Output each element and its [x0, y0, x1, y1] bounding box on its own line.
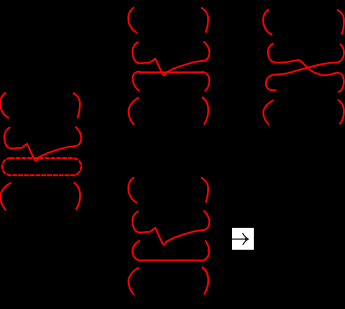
middle-top figure: tube cap right arc	[203, 72, 210, 91]
middle-top figure: top boundary circle, left arc	[128, 8, 136, 33]
middle-bottom figure: top boundary circle, right arc	[202, 178, 208, 202]
middle-bottom figure: saddle (pair-of-pants) curve	[132, 211, 209, 244]
right figure: top boundary circle, right arc	[338, 10, 344, 34]
right figure: crossing strand upper-left to lower-right	[268, 44, 344, 92]
middle-bottom figure: tube cup bottom line	[139, 259, 202, 261]
middle-bottom figure: tube cup right arc	[204, 241, 210, 260]
arrow glyph: stem	[232, 238, 247, 240]
left figure: bottom boundary circle, left arc	[0, 183, 10, 210]
left figure: top boundary circle, left arc	[0, 93, 8, 118]
middle-top figure: bottom boundary circle, left arc	[128, 98, 138, 125]
middle-bottom figure: bottom boundary circle, right arc	[203, 268, 209, 294]
arrow glyph: solid tip	[245, 238, 249, 241]
left figure: bottom boundary circle, right arc	[74, 183, 80, 209]
middle-top figure: saddle (pair-of-pants) curve	[132, 42, 209, 75]
right figure: crossing strand lower-left to upper-right	[266, 44, 344, 90]
white formula box	[232, 228, 254, 250]
middle-bottom figure: tube cup left arc	[132, 241, 139, 260]
middle-top figure: tube cap top line	[140, 71, 203, 73]
right figure: bottom boundary circle, left arc	[263, 100, 273, 124]
right figure: bottom boundary circle, right arc	[338, 100, 344, 124]
left figure: dashed tube circle (surgery circle)	[2, 158, 81, 175]
middle-bottom figure: bottom boundary circle, left arc	[128, 268, 138, 295]
left figure: saddle (pair-of-pants) curve	[4, 127, 81, 160]
middle-bottom figure: top boundary circle, left arc	[128, 178, 136, 203]
middle-top figure: tube cap left arc	[133, 72, 141, 91]
middle-top figure: top boundary circle, right arc	[202, 8, 208, 32]
left figure: top boundary circle, right arc	[74, 93, 80, 117]
middle-top figure: bottom boundary circle, right arc	[203, 98, 209, 124]
right figure: top boundary circle, left arc	[263, 10, 271, 35]
arrow glyph: head barbs	[243, 234, 248, 245]
